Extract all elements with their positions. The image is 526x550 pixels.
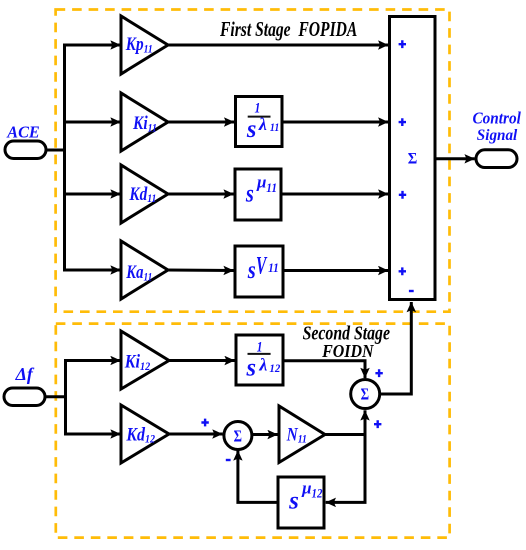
svg-text:Δf: Δf [15, 364, 35, 384]
svg-text:V: V [256, 252, 268, 280]
gain Ki11 label [132, 113, 157, 135]
wire 1/s^lambda12 to summer circle S2 [283, 361, 365, 378]
svg-text:11: 11 [268, 260, 279, 275]
svg-text:Control: Control [473, 110, 522, 128]
wire Ka11 to block s^V11 [167, 269, 234, 273]
summer plus input 1 [399, 40, 406, 48]
wire branch to Ki11 [63, 121, 121, 124]
svg-text:s: s [246, 354, 257, 381]
gain Kp11 triangle [121, 16, 168, 74]
svg-text:Ki11: Ki11 [132, 113, 157, 135]
summer plus input 3 [399, 191, 406, 199]
summer U1 rectangle [390, 17, 436, 300]
wire branch to Kd11 [63, 193, 121, 196]
svg-text:12: 12 [312, 486, 323, 501]
wire s^mu11 to summer [281, 193, 388, 196]
summer circle S1 [224, 422, 252, 450]
wire Kd12 to summer circle S1 [169, 433, 223, 436]
wire Ki11 to block 1/s^lambda11 [167, 121, 234, 124]
summer plus input 2 [399, 118, 406, 126]
summer circle S2 [351, 380, 380, 409]
wire Ki12 to block 1/s^lambda12 [168, 359, 235, 362]
svg-text:Kd11: Kd11 [129, 183, 157, 205]
svg-text:FOIDN: FOIDN [321, 341, 374, 361]
summer U1 sigma symbol [408, 150, 418, 168]
svg-text:Ka11: Ka11 [125, 261, 152, 283]
svg-text:s: s [245, 180, 254, 207]
svg-text:Σ: Σ [234, 428, 242, 446]
input node delta-f terminal oval [4, 388, 45, 406]
wire Kd11 to block s^mu11 [167, 193, 234, 196]
svg-text:μ: μ [256, 173, 266, 192]
svg-text:Signal: Signal [477, 127, 518, 144]
wire stage2 distribution trunk [64, 361, 67, 435]
wire summer to control signal [435, 157, 475, 160]
block 1/s^lambda11 [236, 97, 283, 147]
svg-text:λ: λ [258, 114, 267, 134]
svg-text:11: 11 [270, 121, 279, 134]
wire Kp11 to summer [167, 44, 388, 47]
svg-text:First Stage FOPIDA: First Stage FOPIDA [219, 18, 357, 41]
gain Ki12 triangle [121, 331, 169, 389]
plus sign at S2 bottom input [374, 420, 381, 428]
svg-text:Σ: Σ [408, 150, 418, 168]
output node Control label line1 [473, 110, 522, 128]
wire stage1 distribution trunk [63, 45, 66, 271]
summer circle S1 sigma [234, 428, 242, 446]
second stage title line1 [303, 322, 390, 344]
wire s^mu12 to S1 minus input [238, 450, 278, 502]
gain Ka11 triangle [121, 241, 168, 299]
svg-text:N11: N11 [286, 424, 307, 446]
wire branch to Ka11 [63, 269, 121, 272]
summer circle S2 sigma [361, 386, 370, 404]
svg-text:μ: μ [301, 479, 311, 498]
minus sign at S1 bottom input [226, 459, 231, 461]
first stage title FOPIDA [219, 18, 357, 41]
wire S2 to summer U1 minus input [380, 302, 412, 394]
second stage title line2 FOIDN [321, 341, 374, 361]
block s^mu11 [235, 169, 281, 220]
first stage dashed boundary [56, 10, 450, 312]
svg-text:s: s [246, 116, 257, 143]
wire branch to Kp11 [63, 44, 121, 47]
svg-text:Kp11: Kp11 [125, 34, 153, 56]
gain Kd11 label [129, 183, 157, 205]
wire junction up to S2 plus input [364, 410, 367, 436]
svg-text:Σ: Σ [361, 386, 370, 404]
gain Kd12 label [125, 423, 155, 446]
svg-text:s: s [247, 256, 256, 283]
summer plus input 4 [399, 267, 406, 275]
svg-text:12: 12 [269, 362, 280, 375]
plus sign at S1 left input [201, 419, 208, 427]
summer minus input 5 [409, 290, 414, 292]
svg-text:s: s [288, 488, 299, 515]
input node ACE label [6, 122, 39, 141]
svg-text:Ki12: Ki12 [124, 350, 151, 373]
wire branch to Ki12 [64, 359, 121, 362]
gain Ki11 triangle [121, 93, 168, 151]
gain Kp11 label [125, 34, 153, 56]
wire 1/s^lambda11 to summer [282, 121, 388, 124]
second stage dashed boundary [56, 324, 450, 538]
block 1/s^lambda12 [236, 335, 283, 385]
svg-text:Kd12: Kd12 [125, 423, 155, 446]
plus sign at S2 top input [375, 369, 382, 377]
filter gain N11 triangle [279, 406, 325, 463]
gain Ka11 label [125, 261, 152, 283]
svg-text:ACE: ACE [6, 122, 39, 141]
svg-text:λ: λ [258, 354, 267, 374]
block s^mu12 [278, 477, 324, 528]
wire delta-f to trunk [45, 395, 66, 398]
block s^V11 [235, 246, 283, 297]
wire ACE to trunk [46, 149, 65, 152]
input node ACE terminal oval [5, 141, 46, 159]
svg-text:11: 11 [266, 180, 277, 195]
wire N11 output to junction [325, 433, 365, 436]
output node Signal label line2 [477, 127, 518, 144]
svg-text:1: 1 [257, 338, 263, 355]
gain Kd11 triangle [121, 165, 168, 223]
wire junction down to block s^mu12 [326, 433, 365, 502]
wire s^V11 to summer [283, 269, 388, 272]
gain Kd12 triangle [121, 405, 169, 463]
wire S1 to N11 [252, 433, 278, 436]
wire branch to Kd12 [64, 433, 121, 436]
input node delta-f label [15, 364, 35, 384]
filter gain N11 label [286, 424, 307, 446]
gain Ki12 label [124, 350, 151, 373]
output node Control Signal terminal oval [476, 150, 517, 168]
